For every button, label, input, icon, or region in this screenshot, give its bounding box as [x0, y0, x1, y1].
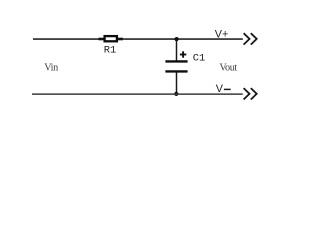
capacitor C1 bottom plate	[165, 70, 187, 72]
wire capacitor bottom lead	[176, 72, 178, 94]
wire top rail right segment (R1 to V+ port)	[122, 38, 243, 40]
resistor R1 right pin stub	[118, 38, 123, 41]
svg-text:Vin: Vin	[44, 63, 58, 74]
capacitor C1 top plate	[165, 60, 187, 62]
port V+ chevron connector	[244, 33, 257, 44]
svg-text:V+: V+	[215, 29, 229, 41]
svg-text:R1: R1	[104, 44, 116, 56]
resistor R1 body	[105, 36, 117, 41]
svg-text:C1: C1	[193, 52, 205, 64]
port V- chevron connector	[244, 88, 257, 99]
wire bottom rail	[32, 93, 243, 95]
capacitor C1 plus polarity mark	[180, 51, 186, 57]
wire top rail left segment (Vin to R1)	[33, 38, 100, 40]
svg-text:V: V	[216, 83, 224, 95]
node junction dot top (cap to top rail)	[175, 37, 179, 41]
wire capacitor top lead	[176, 39, 178, 60]
svg-text:Vout: Vout	[219, 63, 237, 74]
resistor R1 left pin stub	[99, 38, 105, 41]
node junction dot bottom (cap to bottom rail)	[174, 92, 178, 96]
